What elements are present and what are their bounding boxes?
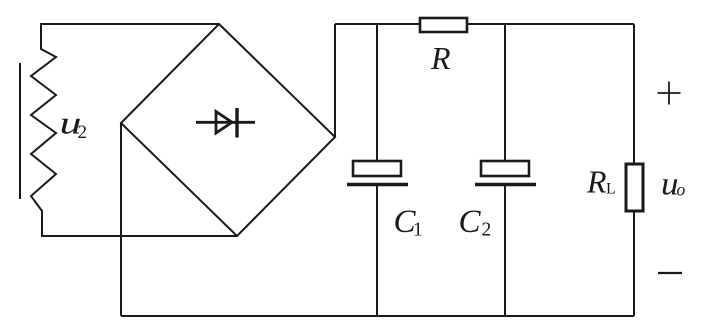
svg-text:2: 2 [78,122,88,143]
svg-text:1: 1 [413,220,423,241]
svg-text:2: 2 [482,220,492,241]
svg-text:C: C [459,204,482,240]
svg-text:o: o [677,180,686,200]
svg-text:R: R [430,40,451,76]
svg-text:L: L [606,181,616,198]
svg-text:R: R [586,164,607,200]
